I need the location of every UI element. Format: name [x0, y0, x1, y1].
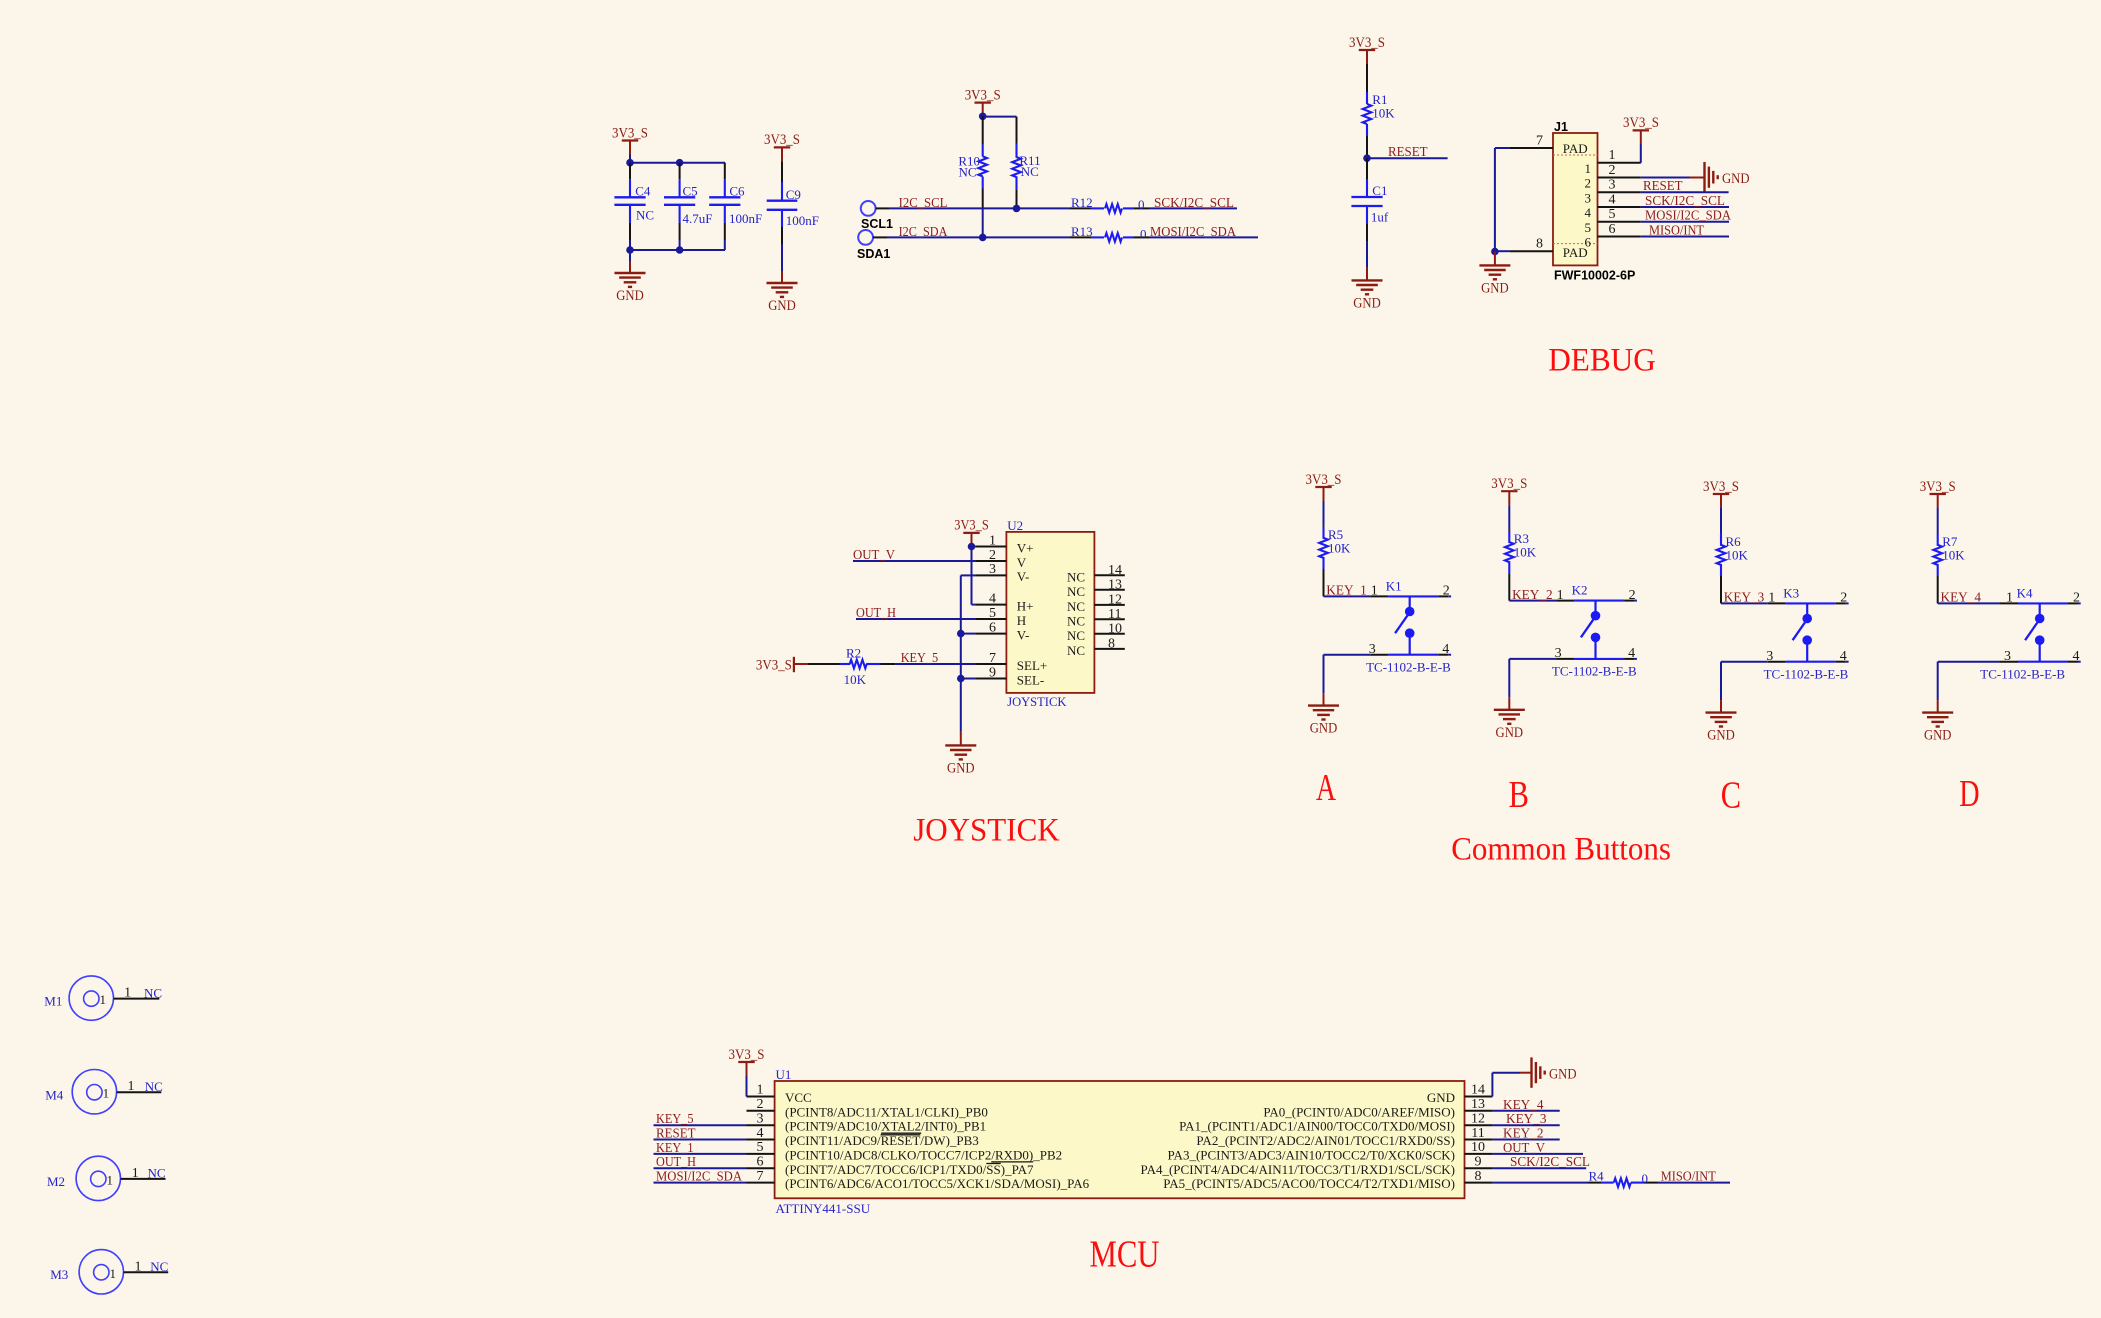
svg-text:10K: 10K: [1514, 545, 1537, 560]
svg-text:4: 4: [2073, 649, 2080, 664]
svg-text:(PCINT9/ADC10/XTAL2/INT0)_PB1: (PCINT9/ADC10/XTAL2/INT0)_PB1: [785, 1119, 986, 1134]
svg-text:3V3_S: 3V3_S: [1491, 476, 1527, 492]
svg-text:KEY_5: KEY_5: [901, 651, 939, 666]
svg-text:3V3_S: 3V3_S: [729, 1047, 765, 1063]
svg-text:RESET: RESET: [1643, 179, 1683, 194]
svg-text:3: 3: [1766, 649, 1773, 664]
svg-text:KEY_1: KEY_1: [656, 1141, 694, 1156]
svg-text:4: 4: [989, 591, 996, 606]
svg-text:V-: V-: [1017, 627, 1030, 642]
svg-text:NC: NC: [1067, 628, 1085, 643]
svg-text:SCL1: SCL1: [861, 217, 893, 231]
svg-text:13: 13: [1108, 577, 1122, 592]
svg-text:SDA1: SDA1: [857, 247, 890, 261]
svg-text:3V3_S: 3V3_S: [1703, 479, 1739, 495]
svg-text:RESET: RESET: [656, 1127, 696, 1142]
svg-text:A: A: [1316, 767, 1336, 809]
svg-text:Common Buttons: Common Buttons: [1451, 832, 1671, 868]
svg-text:K2: K2: [1572, 583, 1588, 598]
svg-text:GND: GND: [1310, 721, 1338, 737]
svg-text:1: 1: [1557, 588, 1564, 603]
svg-text:C: C: [1721, 775, 1741, 817]
svg-text:10K: 10K: [1372, 106, 1395, 121]
svg-text:D: D: [1959, 773, 1979, 815]
svg-text:1: 1: [107, 1172, 114, 1187]
svg-text:SCK/I2C_SCL: SCK/I2C_SCL: [1510, 1155, 1590, 1170]
svg-text:8: 8: [1536, 237, 1543, 252]
svg-text:MOSI/I2C_SDA: MOSI/I2C_SDA: [1150, 225, 1237, 240]
svg-text:2: 2: [1609, 163, 1616, 178]
svg-text:12: 12: [1108, 593, 1122, 608]
svg-text:3V3_S: 3V3_S: [965, 87, 1001, 103]
svg-text:6: 6: [1585, 235, 1592, 250]
svg-text:V-: V-: [1017, 569, 1030, 584]
svg-text:1: 1: [989, 533, 996, 548]
svg-text:TC-1102-B-E-B: TC-1102-B-E-B: [1980, 666, 2065, 681]
svg-text:(PCINT8/ADC11/XTAL1/CLKI)_PB0: (PCINT8/ADC11/XTAL1/CLKI)_PB0: [785, 1104, 988, 1119]
svg-text:GND: GND: [616, 288, 644, 304]
svg-text:I2C_SDA: I2C_SDA: [899, 225, 949, 240]
svg-text:DEBUG: DEBUG: [1548, 343, 1656, 379]
svg-text:VCC: VCC: [785, 1090, 812, 1105]
svg-text:1: 1: [1768, 591, 1775, 606]
svg-text:7: 7: [1536, 133, 1543, 148]
svg-text:4: 4: [1840, 649, 1847, 664]
svg-text:NC: NC: [144, 985, 162, 1000]
svg-text:M1: M1: [44, 993, 62, 1008]
svg-text:SCK/I2C_SCL: SCK/I2C_SCL: [1154, 196, 1234, 211]
svg-text:GND: GND: [1353, 295, 1381, 311]
svg-text:14: 14: [1471, 1083, 1485, 1098]
svg-text:RESET: RESET: [1388, 145, 1428, 160]
svg-text:GND: GND: [1496, 725, 1524, 741]
svg-text:12: 12: [1471, 1111, 1485, 1126]
svg-text:NC: NC: [959, 165, 977, 180]
svg-text:J1: J1: [1554, 120, 1568, 134]
svg-text:11: 11: [1108, 607, 1121, 622]
svg-text:11: 11: [1471, 1126, 1484, 1141]
svg-text:10K: 10K: [1328, 541, 1351, 556]
svg-text:3V3_S: 3V3_S: [1349, 35, 1385, 51]
svg-text:1: 1: [1585, 161, 1592, 176]
svg-text:1: 1: [135, 1259, 142, 1274]
svg-text:3V3_S: 3V3_S: [1920, 479, 1956, 495]
svg-text:R12: R12: [1071, 195, 1093, 210]
svg-text:PA2_(PCINT2/ADC2/AIN01/TOCC1/R: PA2_(PCINT2/ADC2/AIN01/TOCC1/RXD0/SS): [1196, 1133, 1455, 1148]
svg-text:OUT_H: OUT_H: [656, 1155, 696, 1170]
svg-text:10: 10: [1471, 1140, 1485, 1155]
svg-text:3V3_S: 3V3_S: [1623, 115, 1659, 131]
svg-text:1: 1: [100, 992, 107, 1007]
svg-text:3: 3: [2004, 649, 2011, 664]
svg-text:NC: NC: [1067, 614, 1085, 629]
svg-text:TC-1102-B-E-B: TC-1102-B-E-B: [1764, 666, 1849, 681]
svg-text:K1: K1: [1386, 578, 1402, 593]
svg-text:GND: GND: [768, 298, 796, 314]
svg-text:SCK/I2C_SCL: SCK/I2C_SCL: [1645, 194, 1725, 209]
svg-text:C6: C6: [729, 184, 745, 199]
svg-text:NC: NC: [150, 1259, 168, 1274]
svg-text:V: V: [1017, 555, 1027, 570]
svg-text:10K: 10K: [844, 672, 867, 687]
svg-text:I2C_SCL: I2C_SCL: [899, 196, 948, 211]
svg-text:2: 2: [1443, 584, 1450, 599]
svg-text:PA4_(PCINT4/ADC4/AIN11/TOCC3/T: PA4_(PCINT4/ADC4/AIN11/TOCC3/T1/RXD1/SCL…: [1141, 1162, 1455, 1177]
svg-text:7: 7: [989, 651, 996, 666]
svg-text:M3: M3: [50, 1267, 68, 1282]
svg-text:M4: M4: [45, 1087, 64, 1102]
svg-text:100nF: 100nF: [786, 213, 819, 228]
svg-text:1uf: 1uf: [1371, 210, 1389, 225]
svg-text:KEY_1: KEY_1: [1326, 584, 1367, 599]
svg-text:OUT_H: OUT_H: [856, 606, 896, 621]
svg-text:5: 5: [1585, 220, 1592, 235]
svg-text:0: 0: [1642, 1171, 1649, 1186]
svg-text:3: 3: [1369, 642, 1376, 657]
svg-text:NC: NC: [636, 208, 654, 223]
svg-text:4: 4: [1585, 205, 1592, 220]
svg-text:K3: K3: [1783, 585, 1799, 600]
svg-text:3: 3: [989, 562, 996, 577]
svg-text:GND: GND: [1924, 728, 1952, 744]
svg-text:3V3_S: 3V3_S: [764, 132, 800, 148]
svg-text:GND: GND: [1707, 728, 1735, 744]
svg-text:R13: R13: [1071, 224, 1093, 239]
svg-text:2: 2: [757, 1097, 764, 1112]
svg-text:SEL-: SEL-: [1017, 672, 1044, 687]
svg-text:6: 6: [1609, 222, 1616, 237]
svg-text:1: 1: [110, 1266, 117, 1281]
svg-text:1: 1: [103, 1086, 110, 1101]
svg-text:U1: U1: [776, 1067, 792, 1082]
svg-text:NC: NC: [145, 1079, 163, 1094]
svg-text:1: 1: [757, 1083, 764, 1098]
svg-text:(PCINT10/ADC8/CLKO/TOCC7/ICP2/: (PCINT10/ADC8/CLKO/TOCC7/ICP2/RXD0)_PB2: [785, 1147, 1062, 1162]
svg-text:6: 6: [757, 1155, 764, 1170]
svg-text:1: 1: [2006, 591, 2013, 606]
svg-text:1: 1: [1371, 584, 1378, 599]
svg-text:NC: NC: [1067, 643, 1085, 658]
svg-text:GND: GND: [1427, 1090, 1455, 1105]
svg-text:U2: U2: [1007, 518, 1023, 533]
svg-text:10: 10: [1108, 621, 1122, 636]
svg-text:0: 0: [1138, 197, 1145, 212]
svg-text:B: B: [1509, 774, 1529, 816]
svg-text:PA1_(PCINT1/ADC1/AIN00/TOCC0/T: PA1_(PCINT1/ADC1/AIN00/TOCC0/TXD0/MOSI): [1179, 1119, 1455, 1134]
svg-text:H: H: [1017, 613, 1026, 628]
svg-text:R4: R4: [1589, 1169, 1605, 1184]
svg-text:MISO/INT: MISO/INT: [1661, 1170, 1716, 1185]
svg-text:5: 5: [757, 1140, 764, 1155]
svg-text:2: 2: [989, 548, 996, 563]
svg-text:14: 14: [1108, 563, 1122, 578]
svg-text:3: 3: [1585, 190, 1592, 205]
svg-text:3V3_S: 3V3_S: [954, 518, 989, 534]
svg-text:1: 1: [128, 1079, 135, 1094]
svg-text:9: 9: [989, 665, 996, 680]
svg-text:KEY_2: KEY_2: [1503, 1127, 1544, 1142]
svg-text:4: 4: [1442, 642, 1449, 657]
svg-text:KEY_3: KEY_3: [1724, 591, 1765, 606]
svg-text:NC: NC: [1021, 164, 1039, 179]
svg-text:MISO/INT: MISO/INT: [1649, 224, 1704, 239]
svg-text:GND: GND: [947, 760, 975, 776]
svg-text:PA0_(PCINT0/ADC0/AREF/MISO): PA0_(PCINT0/ADC0/AREF/MISO): [1263, 1104, 1455, 1119]
svg-text:TC-1102-B-E-B: TC-1102-B-E-B: [1552, 664, 1637, 679]
svg-text:KEY_2: KEY_2: [1512, 588, 1553, 603]
svg-text:4: 4: [1628, 646, 1635, 661]
svg-text:KEY_4: KEY_4: [1941, 591, 1982, 606]
svg-text:4: 4: [1609, 192, 1616, 207]
svg-text:M2: M2: [47, 1174, 65, 1189]
svg-text:100nF: 100nF: [729, 211, 762, 226]
svg-text:V+: V+: [1017, 540, 1034, 555]
svg-text:NC: NC: [1067, 584, 1085, 599]
svg-text:3V3_S: 3V3_S: [612, 125, 648, 141]
svg-text:4: 4: [757, 1126, 764, 1141]
svg-text:K4: K4: [2017, 585, 2033, 600]
svg-text:GND: GND: [1481, 280, 1509, 296]
svg-text:JOYSTICK: JOYSTICK: [1007, 694, 1067, 709]
svg-text:MCU: MCU: [1090, 1233, 1160, 1275]
svg-text:JOYSTICK: JOYSTICK: [913, 812, 1060, 848]
svg-text:3: 3: [1609, 178, 1616, 193]
svg-text:2: 2: [1585, 176, 1592, 191]
svg-text:GND: GND: [1722, 171, 1750, 187]
svg-text:7: 7: [757, 1169, 764, 1184]
svg-text:KEY_5: KEY_5: [656, 1112, 694, 1127]
svg-text:2: 2: [1840, 591, 1847, 606]
svg-text:9: 9: [1475, 1155, 1482, 1170]
svg-text:KEY_4: KEY_4: [1503, 1098, 1544, 1113]
svg-text:NC: NC: [1067, 570, 1085, 585]
svg-text:H+: H+: [1017, 598, 1034, 613]
svg-text:C4: C4: [635, 184, 651, 199]
svg-text:C1: C1: [1372, 183, 1387, 198]
svg-text:NC: NC: [1067, 599, 1085, 614]
svg-text:3V3_S: 3V3_S: [1306, 472, 1342, 488]
svg-text:PA5_(PCINT5/ADC5/ACO0/TOCC4/T2: PA5_(PCINT5/ADC5/ACO0/TOCC4/T2/TXD1/MISO…: [1163, 1176, 1455, 1191]
svg-text:8: 8: [1475, 1169, 1482, 1184]
svg-text:1: 1: [132, 1166, 139, 1181]
svg-text:8: 8: [1108, 637, 1115, 652]
svg-text:2: 2: [1629, 588, 1636, 603]
svg-text:6: 6: [989, 620, 996, 635]
svg-text:TC-1102-B-E-B: TC-1102-B-E-B: [1366, 659, 1451, 674]
svg-text:10K: 10K: [1942, 548, 1965, 563]
svg-text:PA3_(PCINT3/ADC3/AIN10/TOCC2/T: PA3_(PCINT3/ADC3/AIN10/TOCC2/T0/XCK0/SCK…: [1168, 1147, 1455, 1162]
svg-text:ATTINY441-SSU: ATTINY441-SSU: [776, 1201, 871, 1216]
svg-text:NC: NC: [148, 1166, 166, 1181]
svg-text:C9: C9: [786, 187, 801, 202]
svg-text:1: 1: [1609, 148, 1616, 163]
svg-text:KEY_3: KEY_3: [1506, 1112, 1547, 1127]
svg-text:3: 3: [1555, 646, 1562, 661]
svg-text:C5: C5: [683, 184, 698, 199]
svg-text:PAD: PAD: [1563, 141, 1588, 156]
svg-text:2: 2: [2073, 591, 2080, 606]
svg-text:3: 3: [757, 1111, 764, 1126]
svg-text:13: 13: [1471, 1097, 1485, 1112]
svg-text:SEL+: SEL+: [1017, 658, 1047, 673]
svg-text:MOSI/I2C_SDA: MOSI/I2C_SDA: [1645, 209, 1732, 224]
svg-text:4.7uF: 4.7uF: [683, 211, 713, 226]
svg-text:OUT_V: OUT_V: [1503, 1141, 1545, 1156]
svg-text:5: 5: [1609, 207, 1616, 222]
svg-text:R2: R2: [846, 645, 861, 660]
svg-text:(PCINT6/ADC6/ACO1/TOCC5/XCK1/S: (PCINT6/ADC6/ACO1/TOCC5/XCK1/SDA/MOSI)_P…: [785, 1176, 1090, 1191]
svg-text:3V3_S: 3V3_S: [756, 657, 792, 673]
svg-text:1: 1: [124, 986, 131, 1001]
svg-text:10K: 10K: [1726, 548, 1749, 563]
svg-text:5: 5: [989, 606, 996, 621]
svg-text:FWF10002-6P: FWF10002-6P: [1554, 269, 1635, 283]
svg-text:OUT_V: OUT_V: [853, 548, 895, 563]
svg-text:0: 0: [1140, 226, 1147, 241]
svg-text:GND: GND: [1549, 1066, 1577, 1082]
svg-text:MOSI/I2C_SDA: MOSI/I2C_SDA: [656, 1170, 743, 1185]
